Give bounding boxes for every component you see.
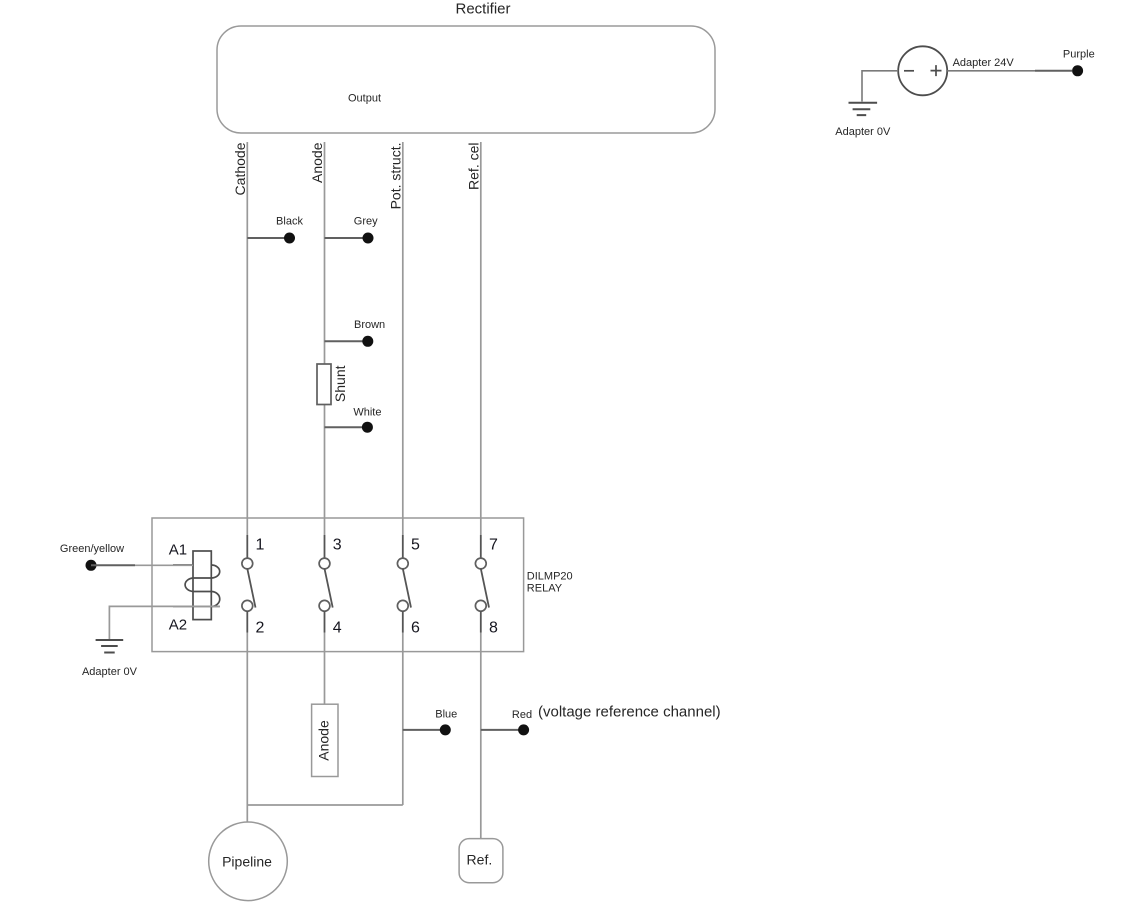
terminal Blue lead bbox=[403, 729, 446, 731]
wire Cathode vertical lower to pipeline bbox=[246, 633, 248, 823]
wire A2 to ground bbox=[109, 606, 219, 639]
terminal Green/yellow dot bbox=[86, 560, 97, 571]
svg-text:A2: A2 bbox=[169, 617, 187, 634]
terminal Red dot bbox=[518, 724, 529, 735]
relay contact 5-6 bbox=[397, 535, 411, 633]
svg-text:8: 8 bbox=[489, 620, 498, 637]
coil lead A2 dark bbox=[173, 605, 220, 607]
plus sign bbox=[931, 65, 942, 76]
svg-text:Pot. struct.: Pot. struct. bbox=[387, 143, 403, 210]
terminal Blue dot bbox=[440, 724, 451, 735]
svg-text:4: 4 bbox=[333, 620, 342, 637]
svg-text:(voltage reference channel): (voltage reference channel) bbox=[538, 704, 721, 721]
relay contact 1-2 bbox=[242, 535, 256, 633]
svg-text:Adapter 0V: Adapter 0V bbox=[835, 126, 891, 138]
svg-text:1: 1 bbox=[256, 537, 265, 554]
resistor Shunt bbox=[317, 364, 331, 405]
wire Ref. cel vertical upper bbox=[480, 142, 482, 535]
wire bottom connector pipeline to pot. struct. bbox=[247, 804, 402, 806]
svg-text:Output: Output bbox=[348, 93, 381, 105]
svg-text:Purple: Purple bbox=[1063, 49, 1095, 61]
svg-text:Ref.: Ref. bbox=[467, 852, 493, 868]
terminal Red lead bbox=[481, 729, 524, 731]
wire Anode relay to anode box bbox=[324, 633, 326, 705]
svg-text:6: 6 bbox=[411, 620, 420, 637]
svg-text:A1: A1 bbox=[169, 542, 187, 559]
svg-text:Brown: Brown bbox=[354, 319, 385, 331]
wire Ref. cel relay to ref box bbox=[480, 633, 482, 840]
pipeline node bbox=[209, 822, 288, 901]
svg-text:Adapter 24V: Adapter 24V bbox=[953, 57, 1015, 69]
coil lead A1 dark bbox=[173, 564, 193, 566]
anode electrode box bbox=[312, 704, 338, 776]
reference cell box bbox=[459, 839, 503, 883]
terminal Brown dot bbox=[362, 336, 373, 347]
adapter voltage source V1 bbox=[898, 46, 947, 95]
wire A1 grey bbox=[135, 564, 193, 566]
svg-text:3: 3 bbox=[333, 537, 342, 554]
rectifier box U1 bbox=[217, 26, 715, 133]
wire Anode vertical upper to shunt bbox=[324, 142, 326, 364]
wire Cathode vertical upper bbox=[246, 142, 248, 535]
ground (adapter) bbox=[849, 103, 878, 115]
relay contact 3-4 bbox=[319, 535, 333, 633]
relay contact 7-8 bbox=[475, 535, 489, 633]
terminal Black dot bbox=[284, 233, 295, 244]
wire Pot. struct. vertical upper bbox=[402, 142, 404, 535]
relay coil core rect bbox=[193, 551, 211, 620]
wire Pot. struct. relay to bottom corner bbox=[402, 633, 404, 806]
svg-text:Blue: Blue bbox=[435, 708, 457, 720]
minus sign bbox=[904, 70, 914, 72]
svg-text:Shunt: Shunt bbox=[332, 365, 348, 402]
svg-text:Rectifier: Rectifier bbox=[455, 1, 510, 18]
svg-text:Anode: Anode bbox=[309, 142, 325, 183]
svg-text:2: 2 bbox=[256, 620, 265, 637]
wire source plus to purple bbox=[947, 70, 1035, 72]
svg-text:RELAY: RELAY bbox=[527, 583, 563, 595]
svg-text:Green/yellow: Green/yellow bbox=[60, 543, 124, 555]
terminal White lead bbox=[325, 426, 368, 428]
terminal Purple dot bbox=[1072, 65, 1083, 76]
svg-text:Cathode: Cathode bbox=[232, 142, 248, 195]
terminal Black lead bbox=[247, 237, 289, 239]
terminal Green/yellow lead dark bbox=[91, 564, 135, 566]
relay coil winding arcs bbox=[185, 565, 220, 606]
relay box K1 bbox=[152, 518, 524, 652]
wire Anode shunt to relay bbox=[324, 405, 326, 536]
svg-text:5: 5 bbox=[411, 537, 420, 554]
terminal White dot bbox=[362, 422, 373, 433]
svg-text:Anode: Anode bbox=[315, 720, 331, 761]
wire source minus to ground bbox=[862, 71, 898, 102]
terminal Brown lead bbox=[325, 340, 368, 342]
terminal Purple lead bbox=[1035, 70, 1072, 72]
terminal Grey lead bbox=[325, 237, 369, 239]
terminal Grey dot bbox=[363, 233, 374, 244]
svg-text:Grey: Grey bbox=[354, 216, 378, 228]
svg-text:Adapter 0V: Adapter 0V bbox=[82, 666, 138, 678]
svg-text:Black: Black bbox=[276, 216, 303, 228]
svg-text:Red: Red bbox=[512, 709, 532, 721]
svg-text:DILMP20: DILMP20 bbox=[527, 571, 573, 583]
svg-text:7: 7 bbox=[489, 537, 498, 554]
svg-text:Pipeline: Pipeline bbox=[222, 853, 272, 869]
svg-text:White: White bbox=[353, 406, 381, 418]
ground (relay coil) bbox=[96, 640, 124, 653]
svg-text:Ref. cel: Ref. cel bbox=[465, 143, 481, 190]
